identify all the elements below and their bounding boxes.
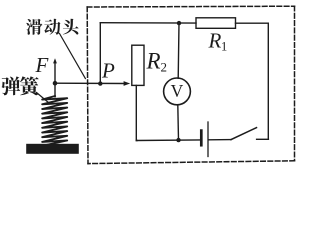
svg-text:2: 2 — [161, 60, 168, 75]
voltmeter branch wire upper — [177, 23, 180, 78]
wire: R2 bottom lead — [135, 85, 138, 140]
wire: left vertical from top wire down to node P — [99, 23, 101, 84]
spring coil — [42, 96, 67, 146]
svg-text:F: F — [35, 53, 49, 77]
label 弹簧 — [2, 76, 39, 95]
battery negative plate (short) — [200, 131, 203, 146]
label 滑动头 — [26, 19, 78, 35]
resistor R1 — [196, 18, 236, 29]
svg-text:P: P — [101, 59, 115, 83]
dashed sensor enclosure box — [87, 6, 294, 163]
wire: bottom horizontal to battery — [136, 139, 200, 142]
rheostat R2 body — [132, 45, 144, 85]
switch blade (open) — [231, 128, 257, 140]
battery positive plate (long) — [207, 122, 209, 157]
wire: right rail vertical — [267, 23, 269, 139]
wire: battery to switch pivot — [209, 139, 231, 141]
slider arrow head — [124, 81, 131, 86]
voltmeter V circle — [164, 78, 191, 105]
bottom junction dot (voltmeter tap) — [176, 138, 180, 142]
spring-top junction dot — [53, 81, 58, 86]
wire: slider horizontal from spring to P and arrow — [55, 82, 125, 84]
svg-text:V: V — [171, 81, 184, 101]
fixed base block — [26, 144, 79, 154]
wire: R1 to right rail corner — [236, 22, 269, 24]
svg-text:R: R — [146, 49, 161, 74]
leader line to 滑动头 — [60, 34, 86, 79]
spring top stem — [54, 85, 56, 97]
top junction dot (voltmeter tap) — [177, 21, 181, 25]
voltmeter branch wire lower — [177, 105, 180, 140]
wire: top horizontal to R1 — [100, 22, 196, 24]
svg-text:1: 1 — [221, 40, 227, 54]
node P junction dot — [98, 81, 102, 85]
switch contact stub — [257, 138, 269, 140]
svg-text:R: R — [208, 29, 222, 53]
force arrow F shaft — [54, 63, 56, 82]
leader line to 弹簧 — [37, 93, 50, 104]
force arrow head — [53, 58, 57, 63]
